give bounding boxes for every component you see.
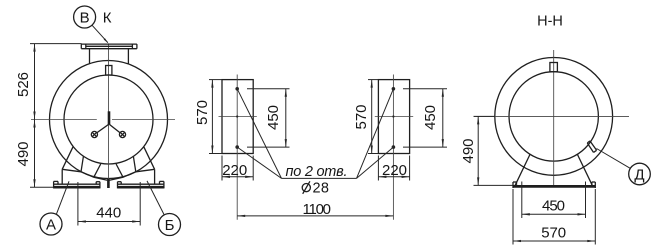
extension line center (490): [474, 115, 496, 117]
skirt facet divider left outer: [81, 156, 84, 172]
holes note leaders left plate: [237, 89, 281, 179]
left base plate: [54, 181, 100, 188]
svg-text:Б: Б: [165, 217, 175, 234]
vertical centerline: [553, 50, 555, 187]
dimension 440: [78, 182, 140, 226]
left foot plate: [222, 80, 253, 154]
vessel inner circle: [64, 75, 153, 164]
label A circle: [40, 213, 62, 235]
skirt facet divider left inner: [94, 164, 101, 177]
dimension 220 right plate: [378, 156, 409, 181]
right plate vertical centerline: [392, 75, 394, 220]
skirt facet divider right inner: [116, 164, 123, 177]
dimension 570 H-H: [513, 189, 595, 245]
svg-text:А: А: [46, 216, 56, 233]
skirt right edge: [144, 147, 155, 170]
svg-text:220: 220: [382, 162, 407, 179]
svg-text:490: 490: [15, 142, 32, 167]
leader B2: [147, 181, 164, 215]
flange K top plate: [81, 44, 137, 49]
holes note leaders right plate: [357, 89, 394, 179]
left plate horizontal centerline: [219, 116, 257, 118]
right drain hole symbol: [119, 131, 125, 137]
label B2 circle: [159, 214, 181, 236]
left plate bottom hole: [235, 145, 239, 149]
svg-text:490: 490: [460, 139, 477, 164]
left plate vertical centerline: [236, 75, 238, 220]
bold center bar: [108, 111, 111, 124]
extension line top (526): [30, 43, 82, 45]
skirt bottom edge left: [62, 169, 107, 180]
label B circle: [74, 6, 96, 28]
svg-text:Н-Н: Н-Н: [537, 14, 563, 30]
vessel outer circle: [50, 61, 168, 179]
nozzle D stub: [587, 141, 596, 153]
dimension 450 H-H: [522, 182, 586, 219]
leader D: [597, 149, 631, 169]
stand right side: [577, 154, 592, 185]
right plate top hole: [392, 87, 396, 91]
svg-text:Д: Д: [634, 166, 644, 183]
right plate horizontal centerline: [375, 116, 413, 118]
dimension 1100: [237, 201, 393, 218]
svg-text:450: 450: [542, 197, 565, 214]
svg-text:220: 220: [222, 162, 247, 179]
vertical centerline: [108, 45, 110, 188]
left drain hole symbol: [91, 131, 97, 137]
dimension 570 right plate: [353, 80, 378, 154]
dimension 490 H-H: [460, 116, 480, 185]
svg-text:526: 526: [15, 72, 32, 97]
dimension 490: [15, 120, 36, 188]
svg-text:К: К: [103, 10, 112, 27]
stand left side: [515, 154, 530, 185]
dimension 450 right plate: [403, 89, 447, 147]
left plate top hole: [235, 87, 239, 91]
dimension 450 left plate: [247, 89, 290, 147]
skirt bottom edge right: [110, 169, 155, 180]
svg-text:570: 570: [194, 100, 211, 125]
leader B to flange: [92, 25, 109, 44]
skirt left edge: [62, 147, 73, 170]
base plate H-H: [513, 182, 595, 188]
outer circle: [495, 58, 613, 176]
inner circle: [509, 72, 598, 161]
right foot plate: [378, 80, 409, 154]
extension line bottom (490): [30, 186, 54, 188]
svg-text:570: 570: [541, 224, 566, 241]
note underline shelf: [282, 177, 357, 179]
skirt left leg: [61, 169, 63, 184]
horizontal centerline: [31, 119, 97, 121]
right plate bottom hole: [392, 145, 396, 149]
svg-text:1100: 1100: [303, 201, 332, 218]
svg-text:450: 450: [422, 105, 439, 130]
plug on inner circle top: [106, 66, 112, 76]
skirt right leg: [154, 169, 156, 184]
leader A: [56, 181, 69, 214]
right plate center mark: [392, 115, 394, 117]
label D circle: [629, 163, 651, 185]
svg-text:28: 28: [313, 180, 330, 196]
svg-text:по 2 отв.: по 2 отв.: [286, 164, 348, 180]
svg-text:450: 450: [265, 105, 282, 130]
skirt facet divider right outer: [133, 156, 136, 172]
skirt center bold post: [107, 179, 110, 188]
svg-text:570: 570: [353, 105, 370, 130]
dimension 570 left plate: [194, 80, 222, 154]
right base plate: [118, 181, 164, 188]
svg-text:В: В: [80, 9, 90, 26]
flange neck: [90, 49, 129, 65]
left drain leader: [97, 124, 109, 132]
plug on inner circle top: [550, 63, 558, 72]
extension line base (490): [474, 184, 514, 186]
right drain leader: [109, 124, 120, 132]
dimension 220 left plate: [222, 156, 253, 181]
left plate center mark: [236, 115, 238, 117]
dimension 526: [15, 44, 36, 120]
horizontal centerline: [474, 115, 629, 117]
svg-text:440: 440: [96, 204, 121, 221]
note text diameter symbol: [302, 181, 310, 194]
